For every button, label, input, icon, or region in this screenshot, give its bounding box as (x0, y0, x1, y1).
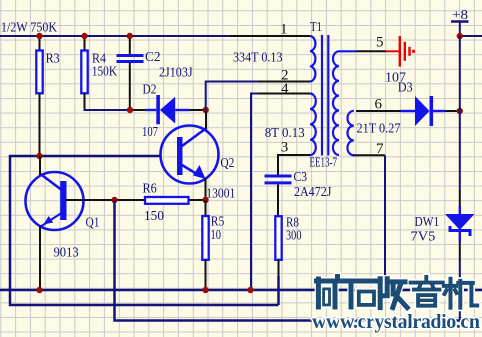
svg-text:3: 3 (281, 140, 289, 156)
svg-text:Q2: Q2 (220, 155, 234, 170)
T1 secondary winding (333, 51, 339, 155)
wire T1 pin1 lead (230, 35, 310, 37)
node junction +8 (457, 33, 463, 39)
svg-text:+8: +8 (452, 7, 468, 22)
svg-text:1: 1 (280, 21, 288, 37)
node junction D2 cathode / C2 bottom (127, 107, 133, 113)
node junction R4 top (81, 33, 87, 39)
node junction R5 bottom / bus (202, 287, 208, 293)
node junction D3 cathode / +8 rail (457, 108, 463, 114)
wire T1 pin3 lead (278, 155, 310, 176)
svg-text:EE13-7: EE13-7 (310, 155, 338, 170)
transformer T1 (310, 19, 354, 170)
wire T1 pin6 lead (356, 110, 401, 112)
svg-text:2J103J: 2J103J (159, 65, 193, 80)
resistor R3 (36, 36, 60, 156)
wire top rail (0, 35, 230, 37)
node junction Q1 emitter / bus (36, 287, 42, 293)
svg-text:9013: 9013 (54, 245, 79, 260)
resistor R5 (202, 200, 224, 290)
resistor R6 (143, 181, 206, 224)
svg-text:R6: R6 (143, 181, 158, 196)
node junction pin4 line / bus (247, 287, 253, 293)
diode D2 (133, 82, 204, 140)
svg-text:Q1: Q1 (86, 215, 100, 230)
wire pin4 to bottom rail (251, 94, 258, 291)
svg-text:D2: D2 (143, 82, 157, 97)
wire +8 rail down (459, 36, 461, 190)
wire T1 pin2 to Q2 collector node (206, 82, 258, 111)
svg-text:21T 0.27: 21T 0.27 (357, 121, 401, 136)
T1 secondary winding 21T (347, 111, 353, 156)
svg-text:1/2W 750K: 1/2W 750K (1, 20, 57, 35)
node junction pin7 line / bus (382, 287, 388, 293)
svg-text:300: 300 (286, 228, 302, 243)
svg-text:334T 0.13: 334T 0.13 (233, 50, 283, 65)
svg-text:107: 107 (142, 124, 158, 139)
wire R4 bottom to node (85, 108, 134, 110)
svg-text:R3: R3 (46, 50, 60, 65)
power +8 port (451, 7, 469, 36)
wire bottom rail bus1 (0, 289, 482, 292)
wire T1 pin7 lead (353, 154, 385, 156)
svg-text:4: 4 (281, 81, 289, 97)
wire T1 pin5 lead (339, 50, 356, 52)
diode D3 (398, 80, 459, 127)
capacitor C3 (265, 169, 332, 216)
wire base net Q1/Q2 (10, 156, 279, 305)
svg-text:10: 10 (211, 227, 222, 242)
svg-text:2A472J: 2A472J (294, 184, 331, 199)
svg-text:C2: C2 (145, 49, 161, 64)
transistor Q2 (161, 111, 236, 201)
node junction R6 left (111, 197, 117, 203)
resistor R8 (275, 215, 301, 306)
T1 core (321, 35, 323, 156)
svg-text:T1: T1 (310, 19, 322, 34)
wire pin7 down to bottom rail (384, 155, 386, 290)
svg-text:8T 0.13: 8T 0.13 (265, 125, 305, 140)
node junction R3 top (36, 33, 42, 39)
node junction C2 top (127, 33, 133, 39)
wire T1 pin4 lead (258, 93, 310, 95)
svg-text:DW1: DW1 (415, 214, 440, 229)
T1 primary winding bottom 8T (310, 94, 316, 156)
node junction D2 anode / Q2 collector (203, 107, 209, 113)
node junction R3 bottom / Q1 collector (36, 153, 42, 159)
capacitor C2 (117, 36, 161, 110)
svg-text:5: 5 (376, 35, 384, 51)
svg-text:150: 150 (144, 208, 164, 223)
wire T1 pin2 lead (258, 81, 310, 83)
ground red (pin5) (386, 36, 414, 67)
watermark kuang-shi-shou-yin-ji (317, 277, 478, 308)
node junction R6 right / Q2 emitter / R5 top (202, 197, 208, 203)
wire feedback net (115, 200, 460, 321)
zener DW1 (411, 206, 475, 321)
svg-text:www.crystalradio.cn: www.crystalradio.cn (312, 311, 480, 333)
resistor R4 (81, 36, 117, 108)
transistor Q1 (26, 156, 145, 290)
svg-text:D3: D3 (398, 80, 413, 95)
T1 primary winding top 334T (310, 36, 315, 82)
svg-text:13001: 13001 (206, 186, 235, 201)
svg-text:6: 6 (375, 97, 383, 113)
svg-text:7: 7 (376, 141, 384, 157)
svg-text:150K: 150K (92, 64, 118, 79)
svg-text:C3: C3 (294, 169, 308, 184)
wire +8 to right edge (460, 35, 482, 37)
svg-text:7V5: 7V5 (411, 229, 436, 244)
